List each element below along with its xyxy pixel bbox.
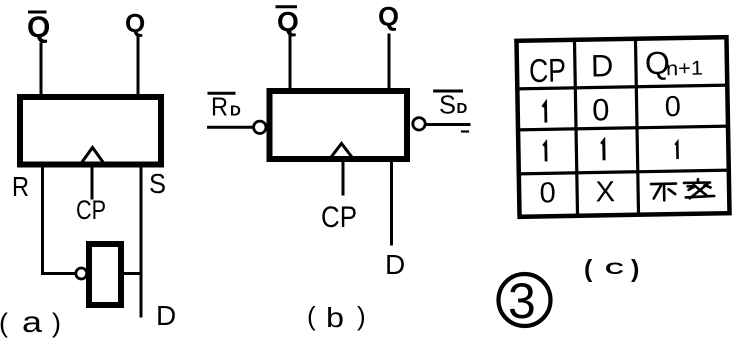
svg-text:S: S xyxy=(149,168,166,199)
svg-text:0: 0 xyxy=(539,177,556,209)
svg-text:X: X xyxy=(595,176,615,208)
svg-text:R: R xyxy=(12,171,29,202)
svg-text:CP: CP xyxy=(76,195,106,225)
svg-text:Q: Q xyxy=(125,8,145,38)
svg-text:0: 0 xyxy=(592,92,610,127)
svg-text:(: ( xyxy=(307,301,316,331)
svg-text:n+1: n+1 xyxy=(666,58,703,81)
svg-text:): ) xyxy=(357,301,366,331)
svg-text:CP: CP xyxy=(321,201,357,234)
svg-text:C: C xyxy=(605,259,624,278)
svg-text:D: D xyxy=(457,100,468,117)
svg-text:): ) xyxy=(631,255,639,283)
svg-text:Q: Q xyxy=(27,11,50,44)
svg-text:0: 0 xyxy=(664,91,681,123)
svg-text:D: D xyxy=(230,103,241,120)
svg-text:D: D xyxy=(591,48,614,83)
svg-text:CP: CP xyxy=(529,51,567,89)
svg-text:Q: Q xyxy=(378,2,399,32)
svg-text:D: D xyxy=(385,249,405,280)
svg-text:a: a xyxy=(22,306,42,338)
svg-text:R: R xyxy=(211,92,228,122)
svg-text:b: b xyxy=(326,302,344,333)
svg-text:D: D xyxy=(156,300,176,331)
svg-text:(: ( xyxy=(584,255,593,283)
svg-text:(: ( xyxy=(0,308,8,338)
svg-text:S: S xyxy=(439,90,456,120)
svg-text:3: 3 xyxy=(508,273,536,329)
svg-text:): ) xyxy=(52,308,61,338)
svg-text:Q: Q xyxy=(277,6,299,37)
